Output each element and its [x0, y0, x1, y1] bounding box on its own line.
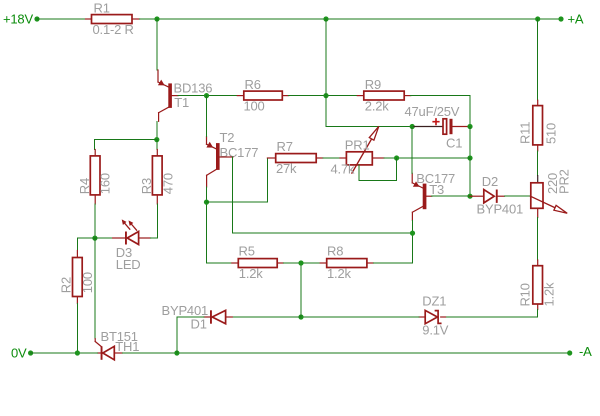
junction x470 row158: [467, 155, 472, 160]
wire T2 base: [220, 157, 413, 233]
svg-text:BC177: BC177: [220, 145, 259, 160]
wire DZ1 to x301 junction: [301, 316, 419, 318]
svg-text:PR2: PR2: [557, 169, 572, 194]
wire PR1 right to x470: [384, 157, 470, 159]
junction x470 T3 base: [467, 194, 472, 199]
junction 0V/R2: [75, 350, 80, 355]
wire 0V rail left: [31, 352, 98, 354]
wire TH1 gate vertical: [94, 238, 96, 339]
resistor R4: [77, 150, 113, 205]
svg-text:0V: 0V: [11, 346, 27, 361]
wire T1 emitter vertical: [156, 19, 158, 70]
svg-text:100: 100: [244, 99, 265, 114]
wire junction to R3 top: [156, 140, 158, 150]
wire R4 bottom to LED junction: [94, 204, 96, 238]
svg-text:9.1V: 9.1V: [422, 322, 448, 337]
wire D1 left corner to 0V: [177, 317, 204, 353]
svg-text:R1: R1: [94, 0, 110, 15]
svg-text:-A: -A: [579, 344, 592, 359]
svg-text:27k: 27k: [276, 161, 297, 176]
wire R1 to +A rail: [140, 18, 562, 20]
svg-text:T3: T3: [429, 182, 444, 197]
wire 0V rail right: [122, 352, 569, 354]
wire R11 to PR2: [537, 151, 539, 176]
svg-text:2.2k: 2.2k: [365, 99, 389, 114]
junction wiper/C1/T3emitter: [410, 124, 415, 129]
junction PR1 wiper loop: [394, 155, 399, 160]
wire T3 collector down: [412, 220, 414, 263]
potentiometer PR1: [331, 126, 385, 176]
node -A: [567, 344, 592, 359]
svg-text:D1: D1: [191, 316, 207, 331]
svg-text:R5: R5: [239, 244, 255, 259]
diode D2: [470, 174, 523, 217]
svg-text:T2: T2: [220, 130, 235, 145]
svg-text:R6: R6: [245, 77, 261, 92]
resistor R10: [518, 260, 557, 310]
LED D3: [113, 219, 151, 272]
wire T3 base: [426, 195, 431, 197]
svg-text:R4: R4: [77, 178, 92, 194]
resistor R1: [86, 0, 140, 36]
svg-text:LED: LED: [116, 257, 141, 272]
wire R2 bottom to 0V rail: [76, 304, 78, 354]
wire junction left to R2 corner: [77, 237, 95, 239]
diode D1: [162, 303, 233, 331]
thyristor TH1 BT151: [95, 329, 139, 360]
wire R10 bottom corner to DZ1 row: [446, 310, 538, 318]
node +18V: [3, 12, 40, 27]
wire PR1 wiper loop: [359, 158, 396, 181]
potentiometer PR2: [530, 169, 571, 217]
wire junction to R4 top: [95, 139, 157, 141]
wire x326 vertical top: [325, 19, 327, 96]
wire R4 top drop: [94, 140, 96, 150]
node +A: [558, 12, 583, 27]
wire row202 to R7 corner: [207, 158, 268, 202]
svg-text:PR1: PR1: [345, 137, 370, 152]
wire PR2 to R10: [537, 218, 539, 261]
wire x470 down to T3 base: [469, 158, 471, 196]
wire R8 right corner up: [373, 262, 412, 264]
transistor Q T1 BD136: [158, 70, 212, 121]
svg-text:R7: R7: [277, 139, 293, 154]
transistor Q T2 BC177: [206, 130, 258, 187]
svg-text:4.7k: 4.7k: [331, 162, 355, 177]
svg-text:1.2k: 1.2k: [239, 266, 263, 281]
wire x537.7 from top rail: [537, 19, 539, 100]
resistor R2: [59, 251, 95, 304]
svg-text:0.1-2 R: 0.1-2 R: [93, 22, 134, 37]
svg-text:BYP401: BYP401: [477, 202, 524, 217]
junction node R4/LED: [92, 236, 97, 241]
wire T3 emitter vertical: [411, 127, 413, 174]
svg-text:160: 160: [98, 173, 113, 194]
svg-text:TH1: TH1: [115, 339, 139, 354]
svg-text:1.2k: 1.2k: [327, 266, 351, 281]
wire wiper row y126: [326, 126, 414, 128]
junction x326 row95: [323, 93, 328, 98]
transistor Q T3 BC177: [412, 171, 455, 220]
resistor R6: [237, 77, 288, 114]
zener diode DZ1: [419, 294, 449, 338]
wire row317 to D1: [232, 316, 301, 318]
svg-text:100: 100: [80, 272, 95, 293]
svg-text:47uF/25V: 47uF/25V: [405, 104, 460, 119]
svg-text:D2: D2: [482, 174, 498, 189]
svg-text:R3: R3: [139, 178, 154, 194]
svg-text:470: 470: [161, 173, 176, 194]
wire +18V to R1: [37, 18, 86, 20]
svg-text:R11: R11: [518, 122, 533, 144]
junction T2 collector row202: [204, 200, 209, 205]
wire LED cathode to R3 bottom: [151, 204, 158, 238]
svg-text:1.2k: 1.2k: [542, 282, 557, 306]
wire R5 left feed: [207, 262, 232, 264]
wire R6 to R9: [289, 95, 358, 97]
svg-text:C1: C1: [446, 136, 462, 151]
svg-text:T1: T1: [174, 95, 189, 110]
wire x301 vertical: [300, 263, 302, 317]
resistor R8: [320, 244, 373, 282]
junction C1 right x470: [467, 124, 472, 129]
wire R9 to x470 corner: [411, 96, 470, 127]
junction 0V/D1: [174, 350, 179, 355]
svg-text:510: 510: [543, 123, 558, 144]
junction top rail x537.7: [535, 16, 540, 21]
wire T1 base: [172, 95, 178, 97]
junction T1 base / T2 emitter: [204, 93, 209, 98]
junction top rail x326: [323, 16, 328, 21]
resistor R11: [518, 100, 559, 151]
junction T3 collector row233: [410, 231, 415, 236]
svg-text:+A: +A: [568, 12, 584, 27]
junction R5/R8 x301: [298, 260, 303, 265]
wire corner down to R2: [76, 238, 78, 250]
wire T2 emitter vertical: [206, 96, 208, 137]
resistor R3: [139, 150, 176, 205]
svg-text:DZ1: DZ1: [422, 294, 446, 309]
wire T1 collector down: [156, 121, 158, 139]
capacitor C1: [405, 104, 471, 150]
svg-text:R9: R9: [365, 77, 381, 92]
node 0V: [11, 346, 33, 361]
wire junction to LED anode: [95, 237, 113, 239]
junction node below T1: [154, 137, 159, 142]
svg-text:R2: R2: [59, 277, 74, 293]
wire D2 to PR2 wiper: [505, 195, 532, 197]
svg-text:+18V: +18V: [3, 12, 33, 27]
resistor R9: [357, 77, 410, 114]
wire x470 down to row158: [469, 127, 471, 159]
wire x326 vertical lower: [325, 96, 327, 127]
junction top rail x157: [154, 16, 159, 21]
wire T2 collector down: [206, 187, 208, 263]
resistor R5: [232, 244, 284, 282]
wire R7 to PR1: [323, 157, 340, 159]
resistor R7: [267, 139, 322, 176]
wire R5 to R8: [283, 262, 320, 264]
svg-text:R8: R8: [327, 244, 343, 259]
svg-text:R10: R10: [518, 283, 533, 306]
junction x301 row317: [298, 314, 303, 319]
